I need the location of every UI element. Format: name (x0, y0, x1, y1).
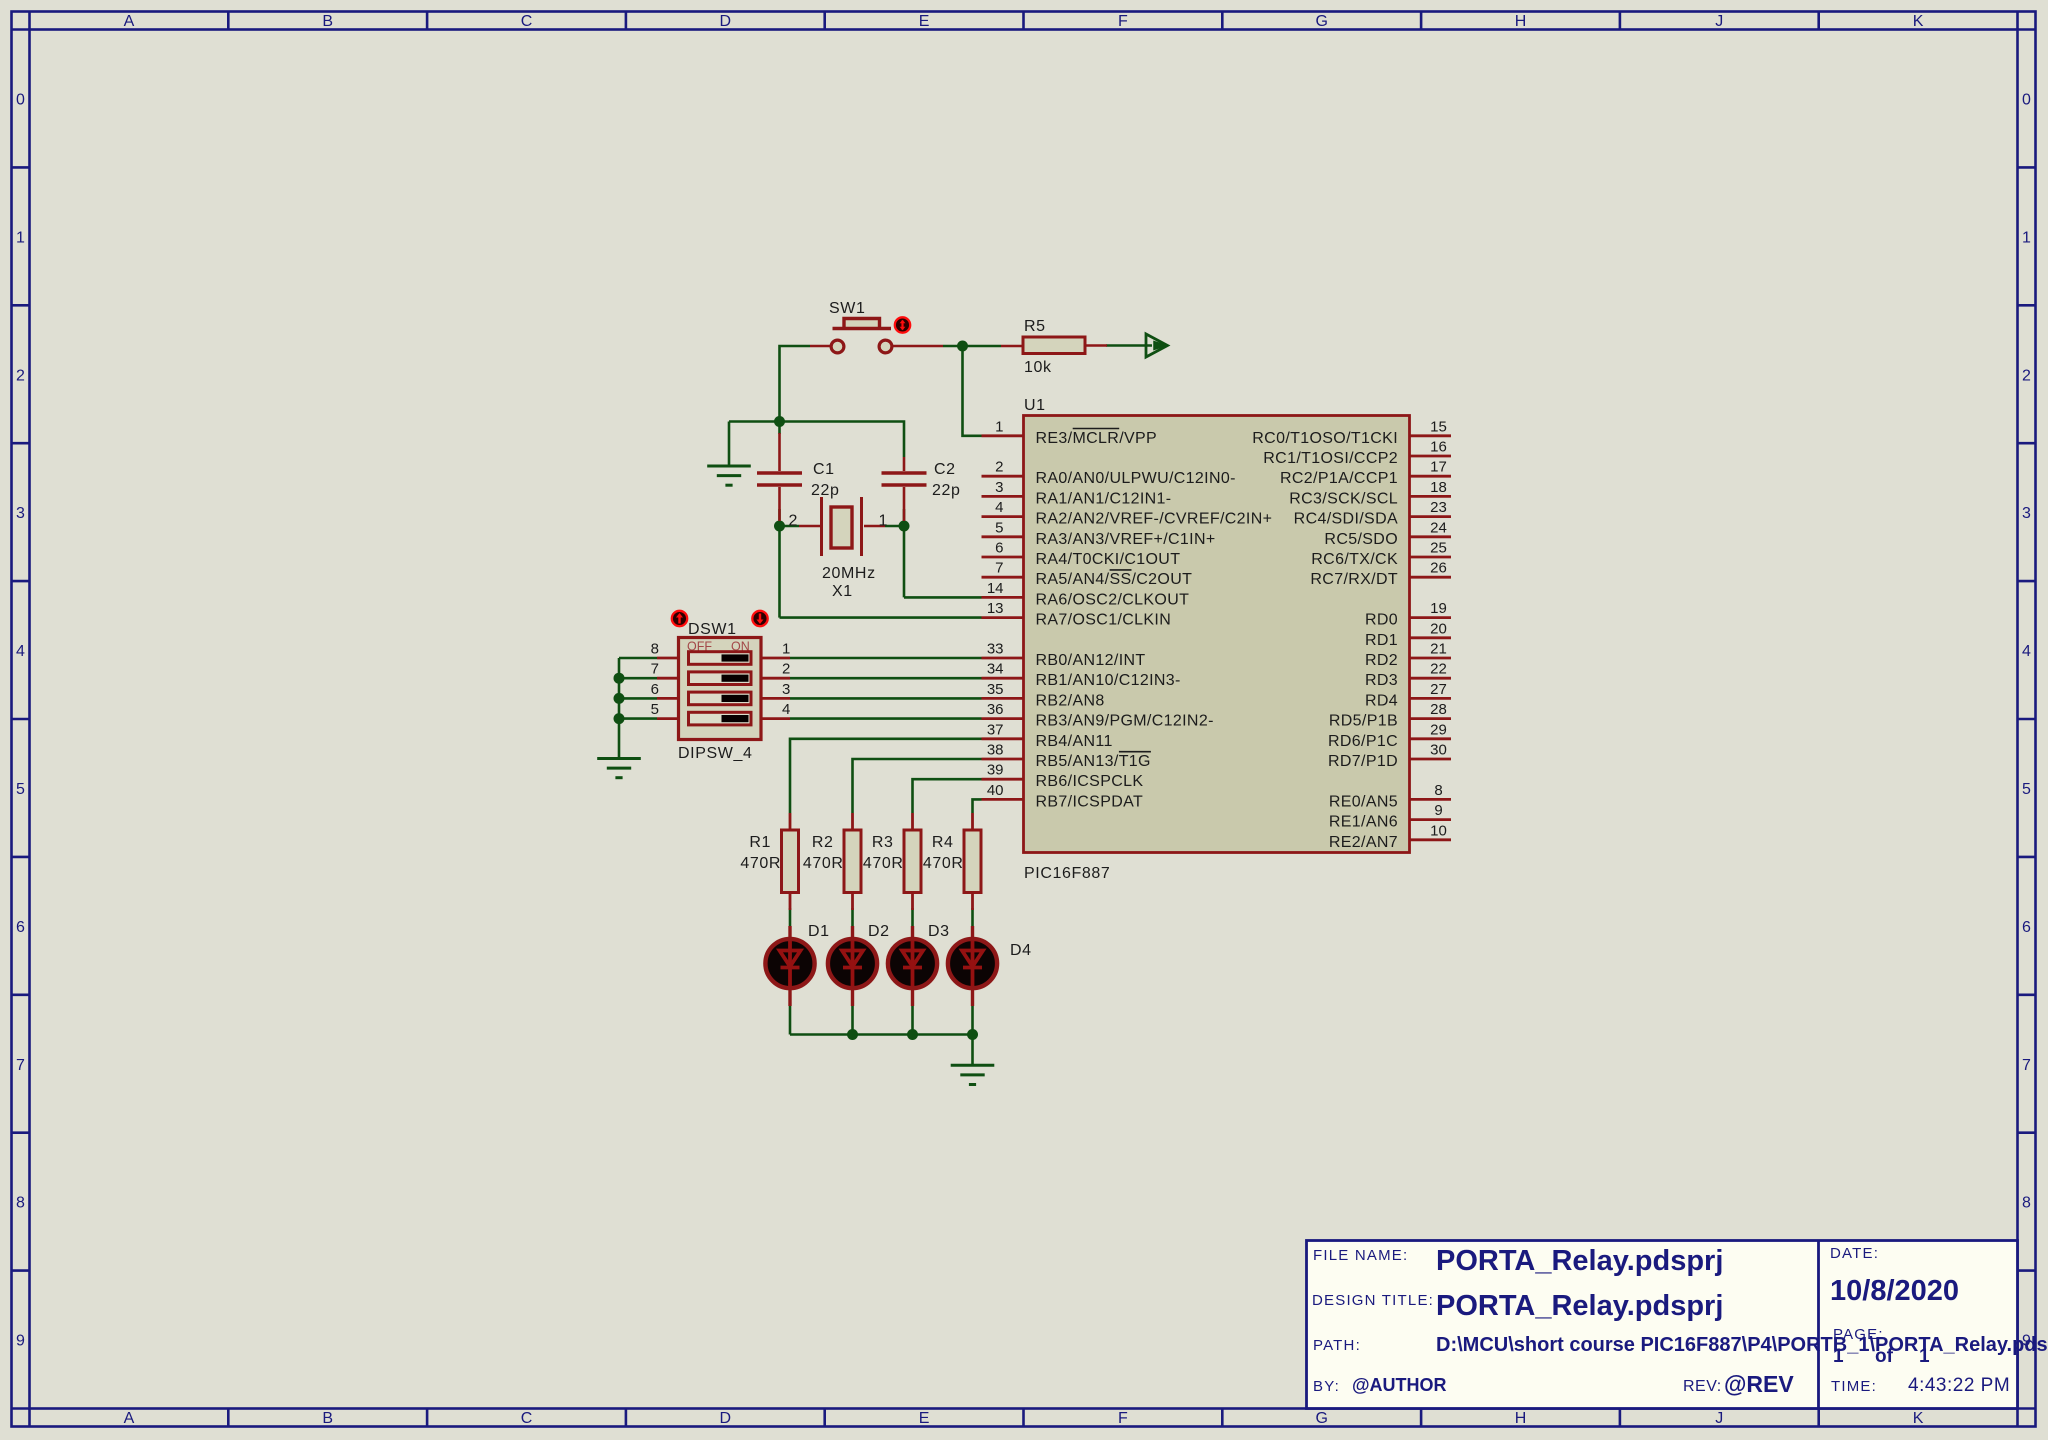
pin 40 RB7/ICSPDAT (982, 782, 1144, 811)
wire rail to C2 top (780, 422, 905, 458)
svg-text:F: F (1118, 1410, 1128, 1427)
wires DSW1 left to ground rail (619, 658, 657, 757)
wires RB4-RB7 to R1-R4 (790, 739, 982, 813)
pin 24 RC5/SDO (1324, 519, 1451, 548)
resistor R3 470R (863, 813, 921, 910)
wire SW1 right to R5 and MCLR (943, 346, 1001, 436)
svg-text:2: 2 (2022, 367, 2031, 384)
svg-text:39: 39 (987, 762, 1004, 779)
svg-text:G: G (1315, 13, 1327, 30)
svg-text:23: 23 (1430, 499, 1447, 516)
svg-text:25: 25 (1430, 540, 1447, 557)
svg-text:H: H (1515, 13, 1527, 30)
resistor R5 (1001, 318, 1107, 376)
svg-text:14: 14 (987, 580, 1004, 597)
pin 33 RB0/AN12/INT (982, 641, 1146, 670)
svg-text:RA0/AN0/ULPWU/C12IN0-: RA0/AN0/ULPWU/C12IN0- (1036, 470, 1236, 487)
svg-text:K: K (1913, 1410, 1924, 1427)
marker DSW1 down (752, 611, 767, 626)
marker SW1 actuator (895, 317, 910, 332)
svg-text:26: 26 (1430, 560, 1447, 577)
DSW1 value label (678, 745, 752, 762)
svg-text:RA1/AN1/C12IN1-: RA1/AN1/C12IN1- (1036, 490, 1172, 507)
svg-text:7: 7 (995, 560, 1003, 577)
svg-text:RE0/AN5: RE0/AN5 (1329, 793, 1398, 810)
svg-text:6: 6 (2022, 919, 2031, 936)
svg-text:RC3/SCK/SCL: RC3/SCK/SCL (1289, 490, 1398, 507)
svg-text:2: 2 (789, 513, 798, 530)
svg-text:H: H (1515, 1410, 1527, 1427)
svg-text:15: 15 (1430, 418, 1447, 435)
svg-text:7: 7 (2022, 1057, 2031, 1074)
wire C1 bottom / crystal left / OSC1 (780, 509, 982, 618)
svg-text:PATH:: PATH: (1313, 1337, 1361, 1354)
junctions LED rail (847, 1029, 978, 1040)
DSW1 pins row 2 (651, 661, 791, 679)
pin 16 RC1/T1OSI/CCP2 (1263, 439, 1451, 468)
svg-text:470R: 470R (740, 855, 781, 872)
LED cathode rail to ground (790, 1006, 973, 1065)
svg-text:18: 18 (1430, 479, 1447, 496)
resistor R1 470R (740, 813, 798, 910)
LED D2 (828, 923, 890, 1006)
pin 21 RD2 (1365, 641, 1451, 670)
svg-text:20: 20 (1430, 620, 1447, 637)
pin 15 RC0/T1OSO/T1CKI (1252, 418, 1451, 447)
svg-text:C: C (521, 13, 533, 30)
svg-text:13: 13 (987, 600, 1004, 617)
svg-text:SW1: SW1 (829, 300, 865, 317)
svg-text:D: D (720, 1410, 732, 1427)
svg-text:10k: 10k (1024, 359, 1052, 376)
svg-text:RE3/MCLR/VPP: RE3/MCLR/VPP (1036, 430, 1158, 447)
svg-text:16: 16 (1430, 439, 1447, 456)
LED D3 (888, 923, 950, 1006)
svg-text:@REV: @REV (1724, 1371, 1794, 1397)
svg-text:22: 22 (1430, 661, 1447, 678)
pin 18 RC3/SCK/SCL (1289, 479, 1451, 508)
svg-text:RB1/AN10/C12IN3-: RB1/AN10/C12IN3- (1036, 672, 1181, 689)
svg-text:RD5/P1B: RD5/P1B (1329, 713, 1398, 730)
svg-text:RA4/T0CKI/C1OUT: RA4/T0CKI/C1OUT (1036, 551, 1181, 568)
pin 25 RC6/TX/CK (1311, 540, 1451, 569)
svg-text:RB4/AN11: RB4/AN11 (1036, 733, 1113, 750)
svg-text:R5: R5 (1024, 318, 1046, 335)
svg-text:0: 0 (2022, 91, 2031, 108)
svg-text:RA2/AN2/VREF-/CVREF/C2IN+: RA2/AN2/VREF-/CVREF/C2IN+ (1036, 511, 1273, 528)
svg-text:6: 6 (16, 919, 25, 936)
svg-text:5: 5 (16, 781, 25, 798)
pin 8 RE0/AN5 (1329, 782, 1451, 811)
svg-text:DATE:: DATE: (1830, 1245, 1879, 1262)
junctions on DSW1 ground rail (614, 673, 625, 724)
svg-text:BY:: BY: (1313, 1378, 1340, 1395)
pin 37 RB4/AN11 (982, 721, 1113, 750)
svg-text:RD4: RD4 (1365, 692, 1398, 709)
svg-text:7: 7 (651, 661, 659, 678)
wires DSW1 right to RB0-RB3 (790, 658, 982, 719)
pin 9 RE1/AN6 (1329, 802, 1451, 831)
pin 14 RA6/OSC2/CLKOUT (982, 580, 1190, 609)
svg-text:D1: D1 (808, 923, 830, 940)
terminal arrow (1146, 334, 1168, 357)
svg-text:RC6/TX/CK: RC6/TX/CK (1311, 551, 1398, 568)
svg-text:D2: D2 (868, 923, 890, 940)
svg-text:E: E (919, 1410, 930, 1427)
svg-text:RC7/RX/DT: RC7/RX/DT (1310, 571, 1398, 588)
svg-text:RD7/P1D: RD7/P1D (1328, 753, 1398, 770)
svg-text:8: 8 (1434, 782, 1442, 799)
svg-text:K: K (1913, 13, 1924, 30)
svg-text:RB2/AN8: RB2/AN8 (1036, 692, 1105, 709)
wire SW1 left to ground/cap rail (780, 346, 811, 434)
crystal X1 (789, 497, 888, 600)
svg-text:B: B (322, 1410, 333, 1427)
pin 35 RB2/AN8 (982, 681, 1105, 710)
svg-text:470R: 470R (923, 855, 964, 872)
pin 4 RA2/AN2/VREF-/CVREF/C2IN+ (982, 499, 1273, 528)
svg-text:4:43:22 PM: 4:43:22 PM (1908, 1375, 2010, 1396)
pin 19 RD0 (1365, 600, 1451, 629)
pin 17 RC2/P1A/CCP1 (1280, 459, 1451, 488)
svg-text:33: 33 (987, 641, 1004, 658)
pin 1 RE3/MCLR/VPP (982, 418, 1158, 447)
pin 27 RD4 (1365, 681, 1451, 710)
dip switch DSW1 (679, 621, 762, 740)
LED D4 (948, 926, 1032, 1006)
svg-text:3: 3 (2022, 505, 2031, 522)
svg-text:4: 4 (16, 643, 25, 660)
pin 13 RA7/OSC1/CLKIN (982, 600, 1172, 629)
resistor R4 470R (923, 813, 981, 910)
svg-text:RE2/AN7: RE2/AN7 (1329, 834, 1398, 851)
svg-text:PORTA_Relay.pdsprj: PORTA_Relay.pdsprj (1436, 1290, 1723, 1322)
pin 20 RD1 (1365, 620, 1451, 649)
svg-text:34: 34 (987, 661, 1004, 678)
svg-text:RC5/SDO: RC5/SDO (1324, 531, 1398, 548)
svg-text:19: 19 (1430, 600, 1447, 617)
svg-text:2: 2 (782, 661, 790, 678)
svg-text:10: 10 (1430, 822, 1447, 839)
svg-text:D4: D4 (1010, 942, 1032, 959)
svg-text:21: 21 (1430, 641, 1447, 658)
svg-text:35: 35 (987, 681, 1004, 698)
svg-text:F: F (1118, 13, 1128, 30)
ground G2 (597, 759, 641, 778)
svg-text:RD1: RD1 (1365, 632, 1398, 649)
svg-text:24: 24 (1430, 519, 1447, 536)
pin 36 RB3/AN9/PGM/C12IN2- (982, 701, 1214, 730)
svg-text:U1: U1 (1024, 397, 1046, 414)
wire R5 to terminal (1106, 344, 1152, 347)
svg-text:RC2/P1A/CCP1: RC2/P1A/CCP1 (1280, 470, 1398, 487)
capacitor C1 (757, 433, 840, 521)
svg-text:G: G (1315, 1410, 1327, 1427)
svg-text:29: 29 (1430, 721, 1447, 738)
svg-text:DSW1: DSW1 (688, 621, 737, 638)
svg-text:RD3: RD3 (1365, 672, 1398, 689)
DSW1 switch 3 slot (689, 692, 752, 705)
svg-text:E: E (919, 13, 930, 30)
pin 2 RA0/AN0/ULPWU/C12IN0- (982, 459, 1236, 488)
junction crystal left (774, 521, 785, 532)
svg-text:R2: R2 (812, 834, 834, 851)
svg-text:5: 5 (651, 701, 659, 718)
svg-text:RD2: RD2 (1365, 652, 1398, 669)
svg-text:8: 8 (2022, 1195, 2031, 1212)
junction rail/C1 (774, 416, 785, 427)
svg-text:RA3/AN3/VREF+/C1IN+: RA3/AN3/VREF+/C1IN+ (1036, 531, 1216, 548)
DSW1 pins row 4 (651, 701, 791, 719)
pin 28 RD5/P1B (1329, 701, 1451, 730)
wire C2 bottom / crystal right / OSC2 (885, 509, 982, 597)
marker DSW1 up (672, 611, 687, 626)
pin 6 RA4/T0CKI/C1OUT (982, 540, 1181, 569)
svg-text:4: 4 (782, 701, 790, 718)
DSW1 switch 4 slot (689, 712, 752, 725)
svg-text:2: 2 (995, 459, 1003, 476)
svg-text:DESIGN TITLE:: DESIGN TITLE: (1312, 1292, 1434, 1309)
svg-text:1: 1 (879, 513, 888, 530)
svg-text:@AUTHOR: @AUTHOR (1352, 1375, 1447, 1395)
svg-text:RD0: RD0 (1365, 612, 1398, 629)
svg-text:1: 1 (995, 418, 1003, 435)
pin 5 RA3/AN3/VREF+/C1IN+ (982, 519, 1216, 548)
svg-text:A: A (124, 13, 135, 30)
DSW1 pins row 1 (651, 641, 791, 659)
svg-text:RC4/SDI/SDA: RC4/SDI/SDA (1294, 511, 1398, 528)
junction crystal right (899, 521, 910, 532)
svg-text:37: 37 (987, 721, 1004, 738)
svg-text:J: J (1715, 1410, 1723, 1427)
svg-text:DIPSW_4: DIPSW_4 (678, 745, 752, 762)
pin 10 RE2/AN7 (1329, 822, 1451, 851)
pin 23 RC4/SDI/SDA (1294, 499, 1451, 528)
title block (1307, 1241, 2048, 1409)
DSW1 pins row 3 (651, 681, 791, 699)
svg-text:X1: X1 (832, 583, 853, 600)
wires R to LED (790, 908, 973, 926)
svg-text:4: 4 (2022, 643, 2031, 660)
svg-text:6: 6 (651, 681, 659, 698)
svg-text:470R: 470R (863, 855, 904, 872)
LED D1 (765, 923, 829, 1006)
ground G1 (707, 466, 751, 485)
svg-text:2: 2 (16, 367, 25, 384)
svg-text:RB6/ICSPCLK: RB6/ICSPCLK (1036, 773, 1144, 790)
pin 38 RB5/AN13/T1G (982, 742, 1151, 771)
svg-text:RB3/AN9/PGM/C12IN2-: RB3/AN9/PGM/C12IN2- (1036, 713, 1214, 730)
svg-text:C: C (521, 1410, 533, 1427)
pin 22 RD3 (1365, 661, 1451, 690)
pin 3 RA1/AN1/C12IN1- (982, 479, 1172, 508)
svg-text:3: 3 (995, 479, 1003, 496)
ground G3 (951, 1065, 995, 1084)
svg-text:C1: C1 (813, 461, 835, 478)
DSW1 switch 2 slot (689, 672, 752, 685)
pin 34 RB1/AN10/C12IN3- (982, 661, 1181, 690)
svg-text:PIC16F887: PIC16F887 (1024, 865, 1110, 882)
svg-text:22p: 22p (932, 482, 961, 499)
svg-text:RB0/AN12/INT: RB0/AN12/INT (1036, 652, 1146, 669)
svg-text:38: 38 (987, 742, 1004, 759)
pin 7 RA5/AN4/SS/C2OUT (982, 560, 1193, 589)
svg-text:D3: D3 (928, 923, 950, 940)
svg-text:17: 17 (1430, 459, 1447, 476)
svg-text:36: 36 (987, 701, 1004, 718)
svg-text:RA6/OSC2/CLKOUT: RA6/OSC2/CLKOUT (1036, 591, 1190, 608)
svg-text:1: 1 (2022, 229, 2031, 246)
svg-text:28: 28 (1430, 701, 1447, 718)
svg-text:20MHz: 20MHz (822, 565, 876, 582)
svg-text:R1: R1 (749, 834, 771, 851)
svg-text:40: 40 (987, 782, 1004, 799)
svg-text:RA7/OSC1/CLKIN: RA7/OSC1/CLKIN (1036, 612, 1172, 629)
svg-text:27: 27 (1430, 681, 1447, 698)
svg-text:5: 5 (995, 519, 1003, 536)
svg-text:6: 6 (995, 540, 1003, 557)
svg-text:3: 3 (16, 505, 25, 522)
svg-text:RB5/AN13/T1G: RB5/AN13/T1G (1036, 753, 1151, 770)
pin 39 RB6/ICSPCLK (982, 762, 1144, 791)
DSW1 switch 1 slot (689, 652, 752, 665)
svg-text:D:\MCU\short course PIC16F887\: D:\MCU\short course PIC16F887\P4\PORTB_1… (1436, 1334, 2048, 1356)
pin 30 RD7/P1D (1328, 742, 1451, 771)
pin 29 RD6/P1C (1328, 721, 1451, 750)
svg-text:RA5/AN4/SS/C2OUT: RA5/AN4/SS/C2OUT (1036, 571, 1193, 588)
svg-text:9: 9 (1434, 802, 1442, 819)
svg-text:8: 8 (651, 641, 659, 658)
svg-text:RC0/T1OSO/T1CKI: RC0/T1OSO/T1CKI (1252, 430, 1398, 447)
svg-text:3: 3 (782, 681, 790, 698)
svg-text:9: 9 (16, 1333, 25, 1350)
svg-text:1: 1 (16, 229, 25, 246)
svg-text:10/8/2020: 10/8/2020 (1830, 1275, 1959, 1307)
svg-text:22p: 22p (811, 482, 840, 499)
svg-text:R4: R4 (932, 834, 954, 851)
svg-text:0: 0 (16, 91, 25, 108)
svg-text:FILE NAME:: FILE NAME: (1313, 1247, 1408, 1264)
svg-text:D: D (720, 13, 732, 30)
IC U1 PIC16F887 (1024, 397, 1410, 882)
switch SW1 (810, 300, 943, 353)
wire rail to ground G1 (729, 422, 780, 468)
svg-text:PORTA_Relay.pdsprj: PORTA_Relay.pdsprj (1436, 1245, 1723, 1277)
resistor R2 470R (803, 813, 861, 910)
svg-text:R3: R3 (872, 834, 894, 851)
pin 26 RC7/RX/DT (1310, 560, 1451, 589)
svg-text:A: A (124, 1410, 135, 1427)
svg-text:TIME:: TIME: (1831, 1378, 1877, 1395)
svg-text:REV:: REV: (1683, 1378, 1722, 1395)
svg-text:470R: 470R (803, 855, 844, 872)
svg-text:J: J (1715, 13, 1723, 30)
svg-text:5: 5 (2022, 781, 2031, 798)
svg-text:B: B (322, 13, 333, 30)
svg-text:8: 8 (16, 1195, 25, 1212)
svg-text:1: 1 (782, 641, 790, 658)
capacitor C2 (882, 457, 961, 521)
svg-text:RB7/ICSPDAT: RB7/ICSPDAT (1036, 793, 1144, 810)
svg-text:RE1/AN6: RE1/AN6 (1329, 814, 1398, 831)
junction SW1/R5/MCLR (957, 341, 968, 352)
svg-text:4: 4 (995, 499, 1003, 516)
svg-text:RD6/P1C: RD6/P1C (1328, 733, 1398, 750)
svg-text:7: 7 (16, 1057, 25, 1074)
svg-text:30: 30 (1430, 742, 1447, 759)
svg-text:RC1/T1OSI/CCP2: RC1/T1OSI/CCP2 (1263, 450, 1398, 467)
svg-text:C2: C2 (934, 461, 956, 478)
